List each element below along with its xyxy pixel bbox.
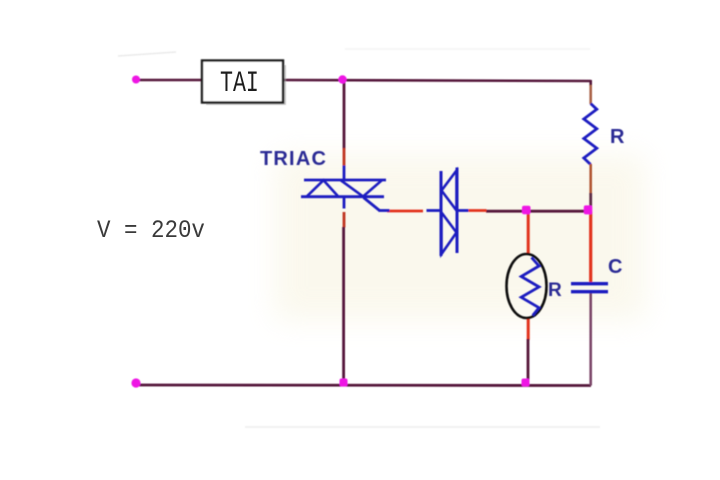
triac Q1 gate stub horizontal — [379, 209, 390, 212]
svg-text:R: R — [548, 280, 562, 301]
background tint — [275, 155, 645, 320]
wire red above triac — [343, 148, 346, 166]
wire red segment left of diac (gate wire) — [387, 210, 423, 213]
node dot bottom junction main vertical — [340, 379, 348, 387]
node dot bottom junction photoresistor branch — [522, 379, 530, 387]
triac Q1 left triangle — [307, 180, 338, 196]
photoresistor R2 zigzag — [521, 258, 539, 316]
triac Q1 gate diagonal — [364, 198, 380, 211]
diac D1 right bar — [456, 168, 459, 254]
wire dark below photoresistor to bottom rail — [527, 339, 530, 385]
wire main vertical lower dark — [342, 227, 345, 384]
diac D1 left bar — [440, 171, 443, 256]
photoresistor R2 ellipse — [507, 254, 547, 318]
svg-text:C: C — [608, 256, 622, 278]
wire mid horizontal red segment right of diac — [469, 209, 487, 212]
capacitor C1 bottom plate — [571, 290, 608, 293]
svg-text:R: R — [610, 126, 625, 148]
diac D1 left lead stub — [427, 209, 442, 212]
triac Q1 right triangle — [341, 180, 382, 196]
artifact line bottom — [245, 426, 600, 428]
wire bottom horizontal — [136, 384, 591, 387]
node dot mid junction at x526 — [522, 206, 531, 215]
diac D1 upper triangle — [442, 171, 457, 211]
wire mid horizontal dark segment — [486, 210, 589, 213]
svg-text:TAI: TAI — [220, 66, 259, 100]
svg-text:V = 220v: V = 220v — [97, 217, 205, 245]
wire right rail upper segment — [589, 80, 592, 86]
artifact scribble top-left — [118, 52, 176, 56]
wire top-left from terminal to TAI box — [137, 79, 202, 82]
load box TAI shadow — [206, 65, 285, 104]
triac Q1 top lead blue — [343, 165, 346, 179]
triac Q1 bottom rail — [301, 195, 384, 198]
svg-text:TRIAC: TRIAC — [260, 148, 327, 170]
wire red between junction and capacitor — [589, 212, 592, 282]
wire red below photoresistor R2 — [527, 317, 530, 340]
diac D1 right lead stub — [457, 209, 469, 212]
triac Q1 top rail — [304, 179, 386, 182]
wire top from TAI box to top-right corner — [283, 80, 591, 81]
node dot mid junction at right rail — [584, 205, 593, 214]
capacitor C1 top plate — [571, 282, 608, 285]
load box TAI — [202, 61, 283, 103]
artifact line top — [345, 48, 590, 50]
wire red lead below resistor R1 — [589, 164, 592, 194]
wire red below triac — [343, 212, 346, 228]
wire right rail below capacitor — [589, 293, 592, 386]
wire main vertical upper dark — [343, 80, 346, 149]
node dot top-left terminal — [132, 76, 140, 84]
wire red above photoresistor R2 — [527, 212, 530, 255]
resistor R1 zigzag — [584, 104, 597, 165]
wire right rail between R1 and junction — [589, 193, 592, 207]
triac Q1 bottom lead blue — [343, 197, 346, 209]
wire red lead above resistor R1 — [589, 85, 592, 104]
node dot bottom-left terminal — [131, 378, 140, 387]
node dot top junction — [338, 75, 346, 83]
diac D1 lower triangle — [442, 213, 457, 255]
